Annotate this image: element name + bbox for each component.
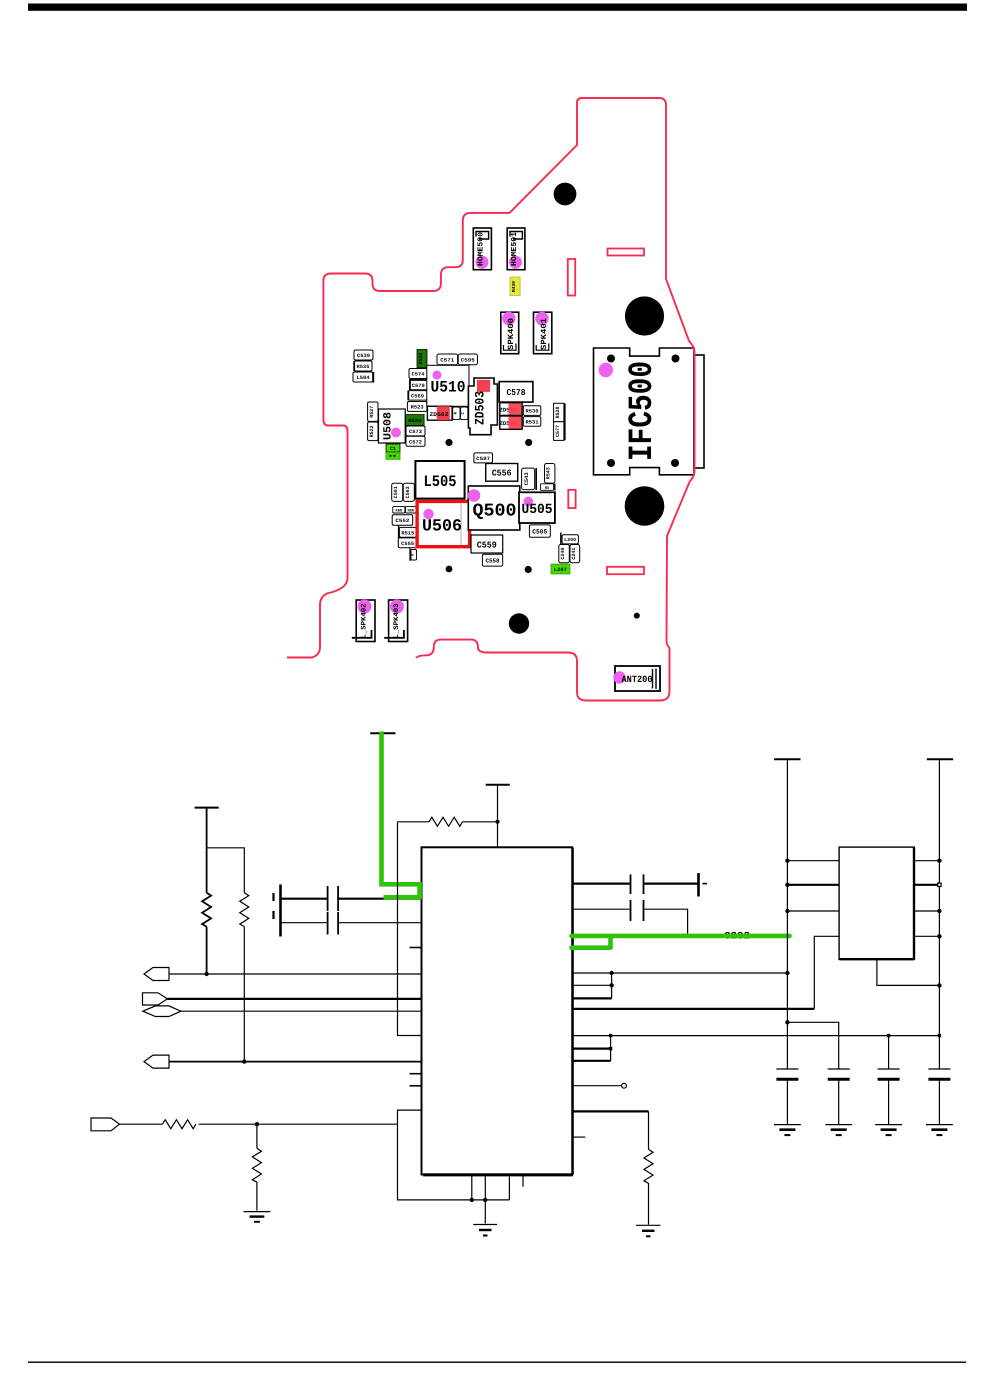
- resistor R515: [399, 525, 417, 547]
- IC U506 (red highlight border): [417, 501, 470, 546]
- capacitor C555: [398, 538, 417, 548]
- svg-text:L505: L505: [424, 473, 457, 491]
- green component (bright, dotted): [386, 452, 400, 459]
- capacitor C559: [471, 535, 503, 553]
- svg-text:ZD503: ZD503: [473, 391, 488, 425]
- green component C1 (bright): [386, 444, 400, 452]
- svg-text:L207: L207: [554, 567, 567, 573]
- capacitor right row1: [573, 882, 630, 884]
- IC left edge pin stubs: [410, 947, 422, 949]
- mount hole (black circle top): [554, 183, 577, 206]
- svg-text:C573: C573: [409, 429, 422, 435]
- red slot vertical upper: [568, 259, 575, 296]
- capacitor C552: [392, 515, 413, 526]
- small part right of ZD502 b: [461, 407, 468, 420]
- svg-text:C587: C587: [476, 456, 490, 462]
- capacitor C570: [410, 380, 427, 390]
- svg-text:R523: R523: [411, 405, 424, 411]
- power rail bar VCC3: [927, 758, 953, 760]
- mount hole (big black circle lower right): [625, 486, 665, 526]
- capacitor C539: [354, 350, 373, 360]
- zener ZD504: [500, 416, 523, 429]
- svg-text:IFC500: IFC500: [624, 361, 662, 461]
- capacitor C-row1: [281, 898, 328, 900]
- wire: [120, 1123, 163, 1125]
- svg-text:R531: R531: [526, 420, 539, 426]
- tiny vertical part: [410, 548, 417, 561]
- signal arrow A1: [144, 968, 169, 981]
- inductor L504: [353, 372, 373, 383]
- U2 right pins: [914, 860, 939, 862]
- resistor R535: [354, 361, 372, 371]
- resistor R530: [523, 406, 541, 416]
- capacitor C558: [482, 554, 502, 566]
- power rail bar VCC2: [774, 758, 800, 760]
- svg-text:L200: L200: [564, 537, 576, 543]
- svg-text:U505: U505: [522, 502, 553, 518]
- red slot vertical middle: [568, 490, 575, 508]
- svg-text:C571: C571: [440, 358, 454, 364]
- svg-text:C240: C240: [560, 548, 566, 560]
- svg-text:C556: C556: [492, 469, 512, 479]
- svg-text:HOME500: HOME500: [477, 232, 486, 266]
- svg-text:C558: C558: [486, 558, 500, 565]
- svg-text:C1: C1: [390, 446, 396, 452]
- resistor R5: [256, 1124, 258, 1148]
- red slot bottom right: [607, 567, 644, 574]
- svg-text:C578: C578: [507, 388, 526, 398]
- svg-text:C569: C569: [411, 393, 424, 399]
- svg-text:U506: U506: [422, 518, 462, 537]
- wire net1: [169, 973, 422, 975]
- left bus wire: [398, 822, 422, 1036]
- capacitor C569: [408, 391, 427, 401]
- wire: [199, 1123, 398, 1125]
- capacitor C578: [499, 382, 533, 403]
- power bar for green net: [370, 732, 395, 734]
- svg-text:C505: C505: [532, 529, 547, 536]
- resistor R527: [368, 402, 378, 421]
- svg-text:R522: R522: [369, 425, 375, 437]
- svg-text:L_SPK403: L_SPK403: [393, 604, 401, 639]
- resistor R523: [407, 402, 427, 412]
- svg-text:R524: R524: [408, 418, 421, 424]
- capacitor C-row2: [281, 922, 328, 924]
- svg-text:C241: C241: [571, 548, 577, 560]
- transistor Q500: [468, 486, 520, 530]
- wire net y998: [573, 997, 612, 999]
- wire: [206, 927, 208, 974]
- capacitor right row2: [573, 908, 630, 910]
- green highlighted wire (left): [382, 732, 420, 898]
- ground G3: [636, 1224, 661, 1226]
- svg-text:C563: C563: [405, 486, 411, 498]
- pad L_SPK402: [352, 600, 375, 642]
- svg-text:ZD502: ZD502: [430, 411, 450, 418]
- connector HOME500: [473, 228, 491, 270]
- connector HOME501: [507, 228, 525, 270]
- pad L_SPK403: [384, 600, 407, 642]
- svg-text:C539: C539: [357, 353, 370, 359]
- power bar VCC1 (left): [195, 807, 219, 809]
- IC U510: [427, 365, 469, 406]
- connector IFC500: [594, 348, 705, 475]
- capacitor C240: [559, 545, 570, 563]
- capacitor C595: [458, 354, 477, 365]
- small part right of ZD502: [453, 407, 460, 420]
- svg-text:R527: R527: [369, 406, 375, 418]
- resistor R430 (yellow): [510, 277, 520, 296]
- wire net4: [169, 1061, 422, 1063]
- wire net y1009 to small IC: [573, 1008, 815, 1010]
- pin stub: [573, 1136, 586, 1138]
- inductor L505: [415, 461, 464, 499]
- svg-text:U510: U510: [431, 379, 466, 397]
- resistor R524 (dark green): [406, 415, 425, 426]
- wire net y1035: [573, 1035, 940, 1037]
- capacitor C3g: [888, 1036, 890, 1069]
- resistor R522: [368, 422, 378, 441]
- bottom footer rule: [28, 1362, 966, 1363]
- svg-text:C543: C543: [524, 472, 530, 485]
- via dots: [445, 439, 452, 446]
- capacitor C505: [529, 525, 550, 537]
- svg-text:RRR: RRR: [396, 509, 403, 514]
- resistor R3 (top): [398, 821, 430, 823]
- svg-text:C574: C574: [412, 372, 425, 378]
- capacitor C1g: [776, 1068, 798, 1070]
- svg-text:C572: C572: [409, 439, 422, 445]
- svg-text:R430: R430: [511, 281, 517, 292]
- capacitor C571: [437, 354, 458, 365]
- svg-text:R535: R535: [357, 364, 370, 370]
- tiny resistor under R543: [541, 484, 555, 491]
- svg-text:R530: R530: [526, 409, 539, 415]
- wire net3: [181, 1010, 422, 1012]
- svg-text:C561: C561: [393, 486, 399, 498]
- svg-text:R5: R5: [545, 486, 550, 491]
- capacitor C241: [570, 545, 580, 563]
- resistor R532 (dark green): [417, 350, 427, 368]
- signal arrow A5 (right pointing): [91, 1118, 120, 1131]
- tiny resistor pair: [393, 506, 405, 513]
- svg-text:C577: C577: [555, 425, 561, 437]
- resistor R6: [644, 1149, 653, 1183]
- wire to R6: [573, 1110, 649, 1112]
- svg-text:R543: R543: [546, 467, 552, 479]
- inductor L207 (green): [551, 564, 570, 574]
- resistor R1: [202, 893, 211, 927]
- svg-text:C570: C570: [412, 383, 425, 389]
- svg-text:HOME501: HOME501: [510, 232, 519, 266]
- red overlay on ZD504/ZD505: [509, 403, 523, 430]
- capacitor C2g: [787, 1022, 838, 1069]
- wire net2: [167, 998, 421, 1000]
- svg-text:C595: C595: [461, 358, 475, 364]
- svg-text:L_SPK402: L_SPK402: [361, 604, 369, 639]
- svg-text:R528: R528: [555, 406, 561, 418]
- antenna pad ANT200: [613, 666, 660, 691]
- resistor R543: [545, 464, 555, 484]
- IC bottom pins: [471, 1175, 473, 1200]
- capacitor C556: [486, 464, 518, 482]
- wire bus at 610: [610, 1036, 612, 1061]
- signal arrow A4: [144, 1055, 169, 1068]
- test point (open circle): [573, 1085, 622, 1087]
- zener ZD502: [427, 406, 452, 420]
- wire around bottom of IC: [398, 1110, 422, 1124]
- capacitor C561: [392, 483, 403, 501]
- wire net y973: [573, 972, 788, 974]
- svg-text:Q500: Q500: [473, 502, 517, 522]
- IC U2 (small right): [839, 847, 914, 959]
- U2 bottom pin: [877, 959, 940, 985]
- resistor R531: [523, 417, 541, 427]
- connector bar (left caps): [279, 885, 282, 937]
- resistor R2: [240, 893, 249, 927]
- svg-text:U508: U508: [383, 412, 395, 440]
- svg-text:ANT200: ANT200: [622, 674, 653, 685]
- svg-text:SPK401: SPK401: [540, 318, 549, 350]
- U2 left pins: [787, 860, 839, 862]
- red slot top right: [608, 249, 645, 256]
- IC U505: [519, 492, 555, 523]
- wire: [206, 808, 208, 893]
- board outline (red PCB edge): [287, 98, 695, 701]
- capacitor C4g: [928, 1068, 950, 1070]
- top header bar: [28, 4, 967, 11]
- T-bar power at IC top: [486, 784, 510, 786]
- mount hole (big black circle upper right): [625, 296, 664, 335]
- mount hole (black circle bottom center): [509, 613, 529, 633]
- ground G2: [473, 1224, 497, 1226]
- ground G1: [244, 1211, 271, 1213]
- wire net y985: [573, 984, 612, 986]
- capacitor C577: [554, 404, 565, 441]
- svg-text:C555: C555: [401, 541, 414, 547]
- inductor L200: [561, 533, 579, 545]
- svg-text:R532: R532: [418, 352, 424, 364]
- capacitor C543: [522, 468, 537, 490]
- wire branch: [207, 848, 245, 893]
- resistor R528: [554, 403, 565, 421]
- green highlighted wire (right): [572, 934, 790, 939]
- svg-text:L504: L504: [357, 375, 370, 381]
- svg-text:C552: C552: [395, 518, 409, 524]
- zener ZD503: [468, 378, 497, 435]
- signal arrow A2: [143, 993, 168, 1005]
- signal arrow A3: [143, 1006, 181, 1017]
- speaker pad SPK401: [534, 312, 552, 354]
- capacitor C573: [406, 426, 425, 436]
- capacitor C587: [474, 453, 493, 463]
- wire: [243, 927, 245, 1062]
- capacitor C563: [403, 483, 414, 501]
- svg-text:RRR: RRR: [407, 509, 414, 514]
- svg-text:R515: R515: [401, 531, 414, 537]
- capacitor C572: [406, 436, 425, 446]
- IC U508: [379, 409, 406, 443]
- zener ZD505: [500, 403, 523, 416]
- resistor R4: [162, 1120, 196, 1129]
- IC U1 (main): [422, 847, 573, 1174]
- speaker pad SPK400: [501, 312, 519, 354]
- capacitor C574: [409, 369, 427, 379]
- svg-text:C559: C559: [477, 541, 497, 551]
- svg-text:SPK400: SPK400: [507, 318, 516, 350]
